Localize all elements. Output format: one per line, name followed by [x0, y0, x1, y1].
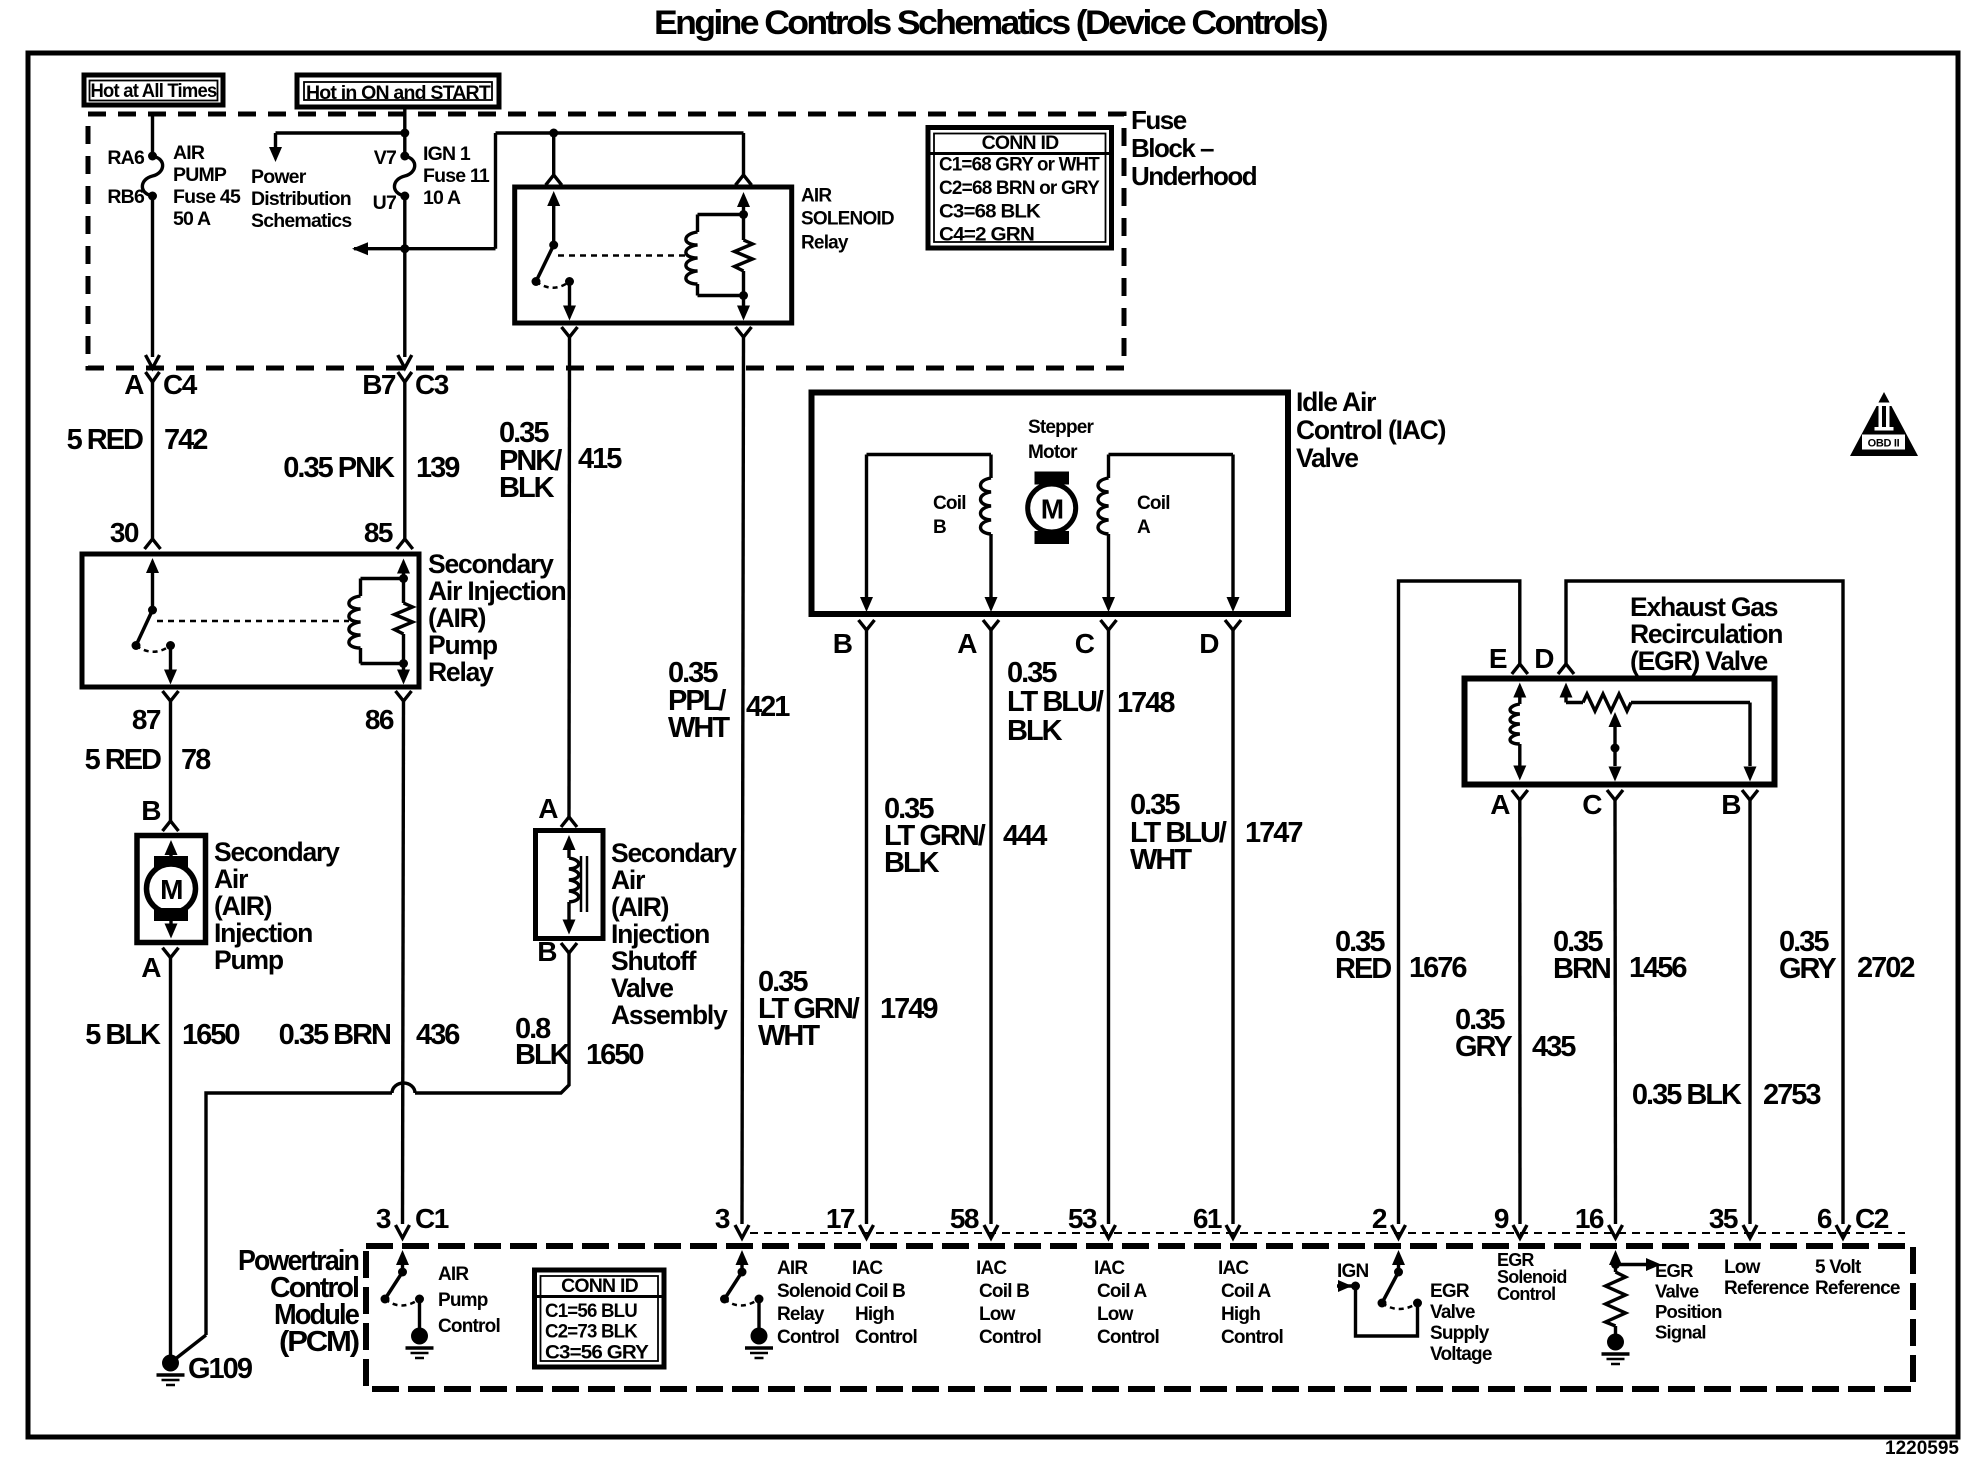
IAC coil A	[1098, 455, 1240, 613]
PCM pin 53 connector	[1102, 1225, 1116, 1238]
svg-text:C3=56 GRY: C3=56 GRY	[545, 1343, 649, 1364]
ground G109	[157, 1355, 185, 1386]
wire down to relay switch	[552, 133, 555, 175]
PCM pin 61 connector	[1226, 1225, 1240, 1238]
svg-text:0.35RED: 0.35RED	[1335, 926, 1391, 985]
svg-text:421: 421	[746, 691, 790, 723]
svg-text:2702: 2702	[1857, 952, 1914, 984]
svg-text:C: C	[1582, 789, 1602, 820]
PCM pin 3 connector	[735, 1225, 749, 1238]
svg-text:C: C	[1075, 628, 1095, 659]
svg-text:16: 16	[1575, 1203, 1604, 1234]
svg-text:35: 35	[1709, 1203, 1738, 1234]
pump relay switch	[132, 558, 178, 685]
svg-text:5 BLK: 5 BLK	[85, 1019, 161, 1051]
relay coil and resistor parallel	[686, 192, 753, 321]
CONN ID box fuse block	[928, 128, 1112, 249]
svg-text:A: A	[141, 952, 161, 983]
E entry chevron	[1512, 664, 1528, 674]
wire 1748 IAC C to PCM pin 53	[1107, 630, 1110, 1224]
svg-text:A: A	[124, 369, 144, 400]
svg-text:5 RED: 5 RED	[85, 744, 161, 776]
IAC pin B chevron	[859, 620, 875, 630]
svg-text:444: 444	[1003, 820, 1047, 852]
PCM pin 35 connector	[1743, 1225, 1757, 1238]
svg-text:0.35 BRN: 0.35 BRN	[279, 1019, 390, 1051]
svg-text:85: 85	[364, 517, 393, 548]
PCM connector thin dashed line	[750, 1232, 1905, 1234]
wire 444 IAC A to PCM pin 58	[989, 630, 992, 1224]
svg-text:V7: V7	[374, 147, 396, 169]
fuse AIR PUMP Fuse 45 50A	[142, 152, 162, 201]
wire 415 solenoid relay to shutoff valve	[567, 337, 571, 817]
svg-text:B: B	[537, 936, 556, 967]
EGR position sense resistor inside PCM	[1602, 1250, 1662, 1364]
pump relay coil and resistor parallel	[349, 559, 413, 685]
svg-text:1220595: 1220595	[1885, 1438, 1959, 1459]
pin 86 chevron	[396, 691, 412, 701]
relay switch output chevron	[562, 327, 578, 337]
PCM pin 3/C1 connector	[396, 1225, 410, 1238]
pin 87 chevron	[163, 691, 179, 701]
svg-text:Hot in ON and START: Hot in ON and START	[306, 82, 491, 104]
OBD II symbol	[1850, 392, 1918, 456]
svg-text:M: M	[160, 874, 182, 905]
svg-text:(PCM): (PCM)	[279, 1326, 359, 1358]
wire below IGN1 fuse	[403, 196, 406, 357]
Hot in ON and START label box	[297, 75, 499, 107]
svg-text:E: E	[1489, 643, 1507, 674]
svg-text:M: M	[1041, 494, 1063, 525]
svg-text:C1: C1	[415, 1203, 449, 1234]
svg-text:58: 58	[950, 1203, 979, 1234]
motor pin A chevron	[163, 948, 179, 958]
svg-text:Exhaust GasRecirculation(EGR): Exhaust GasRecirculation(EGR) Valve	[1630, 592, 1782, 676]
svg-text:17: 17	[826, 1203, 855, 1234]
svg-text:RB6: RB6	[107, 186, 145, 208]
svg-text:OBD II: OBD II	[1868, 438, 1900, 450]
svg-text:435: 435	[1532, 1031, 1576, 1063]
Hot at All Times label box	[84, 75, 223, 105]
svg-text:78: 78	[181, 744, 211, 776]
svg-text:A: A	[957, 628, 977, 659]
relay switch	[532, 191, 577, 321]
PCM pin 9 connector	[1513, 1225, 1527, 1238]
IAC pin A chevron	[983, 620, 999, 630]
wire 78 relay to air pump motor	[169, 701, 172, 821]
wire 421 relay coil to PCM pin 3	[742, 337, 744, 1224]
svg-text:C3=68 BLK: C3=68 BLK	[939, 202, 1041, 223]
junction dot above IGN1 fuse	[400, 129, 409, 138]
connector C4 pin A symbol	[146, 372, 160, 382]
relay coil dashed link	[558, 254, 686, 257]
EGR potentiometer resistor	[1560, 683, 1757, 782]
svg-text:1748: 1748	[1117, 687, 1175, 719]
motor entry chevron	[163, 821, 179, 831]
svg-text:139: 139	[416, 452, 460, 484]
connector arrow at fuse block exit	[146, 355, 160, 368]
AIR SOLENOID relay box	[515, 187, 792, 323]
svg-text:0.35 BLK: 0.35 BLK	[1632, 1079, 1742, 1111]
svg-text:86: 86	[365, 704, 394, 735]
svg-text:1676: 1676	[1409, 952, 1467, 984]
wire 0.8 BLK 1650 to ground	[415, 953, 569, 1093]
svg-text:1749: 1749	[880, 993, 938, 1025]
PCM pin 16 connector	[1609, 1225, 1623, 1238]
branch arrow to other schematics	[354, 247, 496, 250]
Secondary Air Injection Pump motor box	[137, 836, 206, 943]
EGR pin C chevron	[1607, 790, 1623, 800]
pin30 entry chevron	[145, 539, 161, 549]
fuse block underhood dashed box	[88, 114, 1124, 368]
svg-text:742: 742	[164, 424, 207, 456]
svg-text:C4: C4	[163, 369, 198, 400]
svg-text:C2: C2	[1855, 1203, 1889, 1234]
svg-text:1650: 1650	[182, 1019, 239, 1051]
svg-text:B: B	[141, 795, 160, 826]
svg-text:6: 6	[1817, 1203, 1832, 1234]
PCM pin 17 connector	[860, 1225, 874, 1238]
svg-text:5 RED: 5 RED	[67, 424, 143, 456]
svg-text:1747: 1747	[1245, 817, 1302, 849]
svg-text:B7: B7	[362, 369, 396, 400]
PCM pin 2 connector	[1392, 1225, 1406, 1238]
svg-text:B: B	[833, 628, 852, 659]
svg-text:61: 61	[1193, 1203, 1222, 1234]
svg-text:A: A	[1490, 789, 1510, 820]
motor M symbol	[147, 840, 196, 939]
svg-text:A: A	[538, 793, 558, 824]
wire 435 EGR A to PCM pin 9	[1518, 800, 1522, 1224]
wire 1747 IAC D to PCM pin 61	[1231, 630, 1234, 1224]
shutoff valve solenoid coil	[563, 835, 588, 935]
Idle Air Control valve box	[812, 393, 1289, 615]
svg-text:1650: 1650	[586, 1039, 643, 1071]
PCM pin 6/C2 connector	[1836, 1225, 1850, 1238]
svg-text:C3: C3	[415, 369, 449, 400]
wire 1749 IAC B to PCM pin 17	[865, 630, 868, 1224]
svg-text:B: B	[1721, 789, 1740, 820]
svg-text:1456: 1456	[1629, 952, 1687, 984]
Secondary Air Injection Shutoff Valve Assembly box	[536, 831, 604, 939]
svg-text:87: 87	[132, 704, 161, 735]
EGR valve supply voltage switch inside PCM	[1337, 1250, 1422, 1336]
pin85 entry chevron	[397, 539, 413, 549]
wire 742 down to pump relay pin30	[151, 382, 154, 539]
svg-text:U7: U7	[373, 192, 396, 214]
PCM dashed box	[366, 1246, 1913, 1389]
svg-text:CONN ID: CONN ID	[561, 1275, 638, 1297]
svg-text:C1=68 GRY or WHT: C1=68 GRY or WHT	[939, 155, 1100, 176]
relay feed line	[496, 131, 744, 134]
EGR riser wire pin2 to E	[1399, 581, 1520, 1224]
wire 436 pump relay pin86 to PCM pin 3/C1	[403, 701, 404, 1224]
AIR solenoid relay control switch inside PCM	[720, 1250, 773, 1358]
wire 2753 EGR B to PCM pin 35	[1748, 800, 1751, 1224]
wire from Hot at All Times into fuse block	[151, 114, 154, 156]
svg-text:IGN: IGN	[1337, 1261, 1368, 1282]
wire hop over 436 wire	[392, 1083, 415, 1093]
AIR pump control switch inside PCM	[381, 1250, 434, 1358]
svg-text:53: 53	[1068, 1203, 1097, 1234]
wire 139 to pump relay pin 85	[403, 382, 406, 539]
svg-text:2753: 2753	[1763, 1079, 1821, 1111]
connector B7/C3 at fuse block exit	[398, 355, 412, 368]
PCM CONN ID box	[535, 1270, 665, 1367]
svg-text:C4=2 GRN: C4=2 GRN	[939, 225, 1034, 246]
svg-text:D: D	[1199, 628, 1219, 659]
shutoff valve entry chevron	[561, 817, 577, 827]
EGR pin B chevron	[1742, 790, 1758, 800]
shutoff valve pin B chevron	[561, 943, 577, 953]
EGR wiper	[1609, 712, 1622, 782]
svg-text:C2=73 BLK: C2=73 BLK	[545, 1322, 638, 1343]
svg-text:3: 3	[376, 1203, 391, 1234]
svg-text:2: 2	[1372, 1203, 1387, 1234]
Secondary Air Injection Pump Relay box	[82, 554, 419, 687]
svg-text:Hot at All Times: Hot at All Times	[91, 80, 218, 102]
svg-text:RA6: RA6	[107, 147, 145, 169]
pump relay coil dashed link	[157, 620, 349, 623]
svg-text:Engine Controls Schematics (De: Engine Controls Schematics (Device Contr…	[654, 4, 1327, 42]
svg-text:CONN ID: CONN ID	[982, 132, 1059, 154]
IAC pin D chevron	[1225, 620, 1241, 630]
svg-text:9: 9	[1494, 1203, 1509, 1234]
wire 1456 EGR C to PCM pin 16	[1613, 800, 1617, 1224]
svg-text:30: 30	[110, 517, 139, 548]
fuse IGN 1 Fuse 11 10A	[394, 152, 414, 201]
D entry chevron	[1558, 664, 1574, 674]
svg-text:0.35 PNK: 0.35 PNK	[283, 452, 395, 484]
diagonal into ground	[174, 1335, 206, 1360]
branch wire to power distribution schematics	[276, 131, 405, 134]
junction dot relay switch feed	[549, 129, 558, 138]
wire down to relay coil	[742, 133, 745, 175]
wire 1650 motor to ground	[169, 958, 172, 1356]
wire from Hot in ON and START into fuse block	[403, 109, 406, 156]
svg-text:D: D	[1534, 643, 1554, 674]
svg-text:C2=68 BRN or GRY: C2=68 BRN or GRY	[939, 178, 1100, 199]
svg-text:0.35BRN: 0.35BRN	[1553, 926, 1610, 985]
svg-text:C1=56 BLU: C1=56 BLU	[545, 1301, 637, 1322]
EGR solenoid coil	[1510, 683, 1526, 781]
svg-text:436: 436	[416, 1019, 460, 1051]
IAC pin C chevron	[1101, 620, 1117, 630]
relay coil output chevron	[736, 327, 752, 337]
IAC stepper motor M	[1028, 472, 1076, 545]
IAC coil B	[860, 455, 998, 613]
wire fuse to connector A/C4	[151, 196, 154, 357]
EGR pin A chevron	[1512, 790, 1528, 800]
PCM pin 58 connector	[984, 1225, 998, 1238]
svg-text:415: 415	[578, 443, 622, 475]
svg-text:G109: G109	[188, 1353, 253, 1385]
junction dot IGN feed	[400, 244, 409, 253]
svg-text:3: 3	[715, 1203, 730, 1234]
riser wire to relay feed line	[494, 133, 497, 249]
EGR riser wire pin6 to D	[1566, 581, 1843, 1224]
EGR valve box	[1465, 679, 1775, 785]
